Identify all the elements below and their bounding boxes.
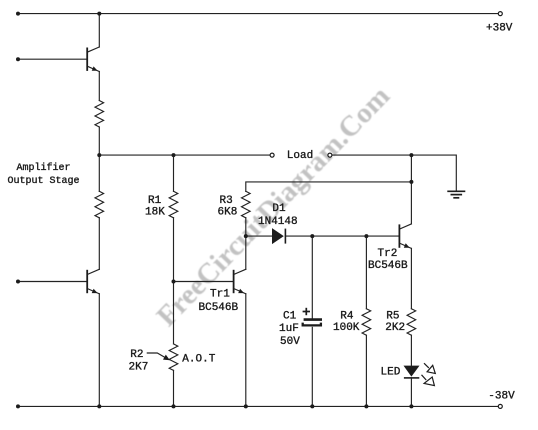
svg-text:18K: 18K (145, 206, 165, 218)
svg-text:1uF: 1uF (279, 323, 299, 335)
svg-text:Amplifier: Amplifier (16, 162, 70, 174)
svg-text:1N4148: 1N4148 (258, 216, 298, 228)
svg-text:-38V: -38V (488, 390, 515, 402)
svg-text:LED: LED (381, 367, 401, 379)
svg-text:R5: R5 (386, 311, 399, 323)
svg-text:Output Stage: Output Stage (7, 176, 79, 187)
svg-text:A.O.T: A.O.T (182, 354, 215, 366)
svg-text:R3: R3 (220, 195, 233, 207)
svg-text:100K: 100K (333, 322, 360, 334)
svg-text:BC546B: BC546B (368, 260, 408, 272)
svg-text:6K8: 6K8 (218, 206, 238, 218)
svg-text:50V: 50V (280, 336, 300, 348)
svg-text:BC546B: BC546B (199, 302, 239, 314)
svg-text:R1: R1 (148, 195, 162, 207)
svg-text:2K2: 2K2 (385, 322, 405, 334)
svg-text:C1: C1 (283, 310, 297, 322)
svg-text:Tr1: Tr1 (210, 289, 230, 301)
svg-text:D1: D1 (272, 203, 286, 215)
svg-text:Tr2: Tr2 (378, 248, 398, 260)
svg-text:2K7: 2K7 (129, 361, 149, 373)
svg-text:+38V: +38V (486, 23, 513, 35)
svg-text:R4: R4 (340, 311, 354, 323)
svg-text:Load: Load (287, 150, 313, 162)
svg-text:R2: R2 (130, 349, 143, 361)
